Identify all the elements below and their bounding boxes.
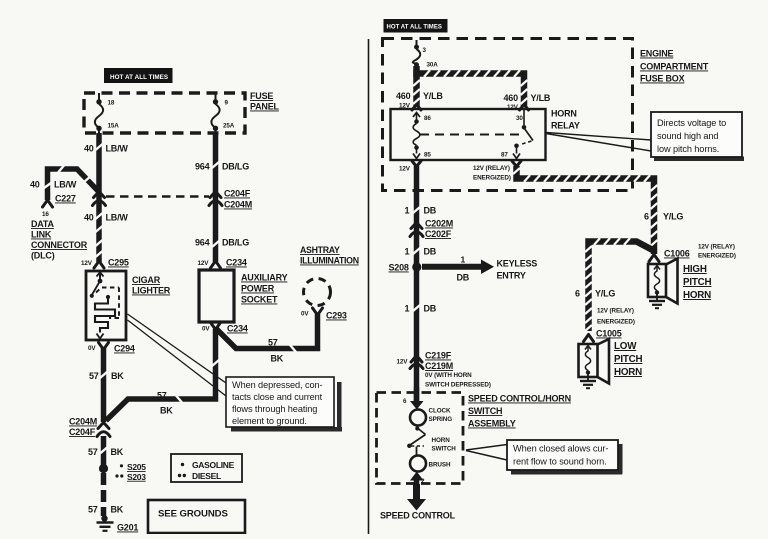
svg-text:SPEED CONTROL/HORN: SPEED CONTROL/HORN: [468, 394, 571, 404]
inline connector C202M/C202F: [410, 219, 453, 240]
label 6 Y/LG (lower): [575, 289, 615, 299]
label 12V (RELAY) ENERGIZED (low horn): [597, 308, 635, 326]
svg-text:LOW: LOW: [614, 341, 637, 352]
svg-text:C295: C295: [108, 258, 129, 268]
callout: when depressed note: [226, 377, 342, 432]
svg-text:BK: BK: [111, 447, 124, 457]
svg-text:40: 40: [30, 180, 40, 190]
wire 40 LB/W from fuse to C295: [96, 133, 103, 262]
svg-text:SWITCH DEPRESSED): SWITCH DEPRESSED): [425, 382, 491, 389]
label HOT AT ALL TIMES (left): [104, 68, 173, 83]
svg-text:POWER: POWER: [241, 284, 275, 294]
inline connector C219F/C219M: [397, 351, 491, 389]
wire dashed segments below splice: [88, 473, 124, 516]
high pitch horn: [648, 259, 678, 304]
wire branch to low pitch horn: [585, 238, 653, 331]
svg-text:12V (RELAY): 12V (RELAY): [698, 244, 735, 251]
label 1 DB (below C202): [405, 247, 437, 257]
svg-text:57: 57: [268, 338, 278, 348]
label 964 DB/LG (bottom): [195, 238, 249, 248]
svg-text:SWITCH: SWITCH: [468, 406, 502, 416]
svg-text:6: 6: [403, 398, 407, 405]
svg-text:C234: C234: [227, 324, 248, 334]
svg-text:COMPARTMENT: COMPARTMENT: [640, 62, 709, 72]
svg-text:ENERGIZED): ENERGIZED): [597, 319, 635, 326]
svg-text:25A: 25A: [223, 123, 235, 130]
svg-text:SPRING: SPRING: [429, 416, 453, 423]
svg-text:1: 1: [405, 206, 410, 216]
splice S208 and keyless entry arrow: [389, 255, 495, 283]
svg-text:85: 85: [424, 152, 431, 159]
label DATA LINK CONNECTOR (DLC): [31, 219, 88, 261]
connector C227 pin 16: [42, 194, 76, 219]
svg-text:C204M: C204M: [224, 200, 252, 210]
auxiliary power socket box: [199, 270, 234, 322]
svg-text:Y/LG: Y/LG: [663, 212, 683, 222]
connector C1005: [584, 329, 622, 342]
label 12V under relay pin 85: [399, 161, 421, 173]
label LOW PITCH HORN: [614, 341, 643, 378]
label SPEED CONTROL: [380, 511, 456, 521]
svg-text:LB/W: LB/W: [106, 213, 129, 223]
svg-text:C1005: C1005: [596, 329, 622, 339]
svg-text:CLOCK: CLOCK: [429, 408, 451, 415]
svg-text:0V (WITH HORN: 0V (WITH HORN: [425, 372, 472, 379]
connector C234 (top of socket): [198, 258, 247, 269]
svg-text:964: 964: [195, 162, 210, 172]
label HIGH PITCH HORN: [683, 264, 712, 301]
callout: directs voltage note: [651, 112, 744, 161]
svg-text:HORN: HORN: [614, 367, 642, 378]
splice S205/S203: [99, 462, 146, 482]
label HOT AT ALL TIMES (right): [384, 19, 448, 33]
low pitch horn: [579, 339, 610, 384]
label ENGINE COMPARTMENT FUSE BOX: [640, 49, 709, 84]
svg-text:DB: DB: [424, 247, 437, 257]
svg-text:CONNECTOR: CONNECTOR: [31, 240, 88, 250]
label 1 DB (below S208): [405, 304, 437, 314]
svg-text:HORN: HORN: [551, 109, 577, 119]
svg-text:964: 964: [195, 238, 210, 248]
relay dashed actuator link: [420, 134, 521, 136]
svg-text:PITCH: PITCH: [614, 354, 643, 365]
svg-text:460: 460: [504, 93, 519, 103]
pin 6 and entry arrow: [403, 387, 424, 410]
wire 57 BK from C294 down: [100, 348, 107, 422]
connector C295: [81, 258, 129, 269]
svg-text:C204F: C204F: [224, 189, 251, 199]
label 1 DB (above C202): [405, 206, 437, 216]
svg-text:12V (RELAY): 12V (RELAY): [597, 308, 634, 315]
label 12V (RELAY) ENERGIZED under pin 87: [473, 161, 521, 182]
dashed connector line C204: [106, 195, 209, 197]
wire ground link from C234 via 57 BK to main: [106, 329, 219, 421]
svg-text:HOT AT ALL TIMES: HOT AT ALL TIMES: [387, 25, 442, 31]
svg-text:Directs voltage to: Directs voltage to: [657, 118, 726, 128]
wire branch to C227: [44, 166, 99, 201]
svg-text:KEYLESS: KEYLESS: [497, 259, 538, 269]
svg-text:3: 3: [423, 47, 427, 54]
svg-text:57: 57: [89, 371, 99, 381]
svg-text:C227: C227: [55, 194, 76, 204]
svg-text:DATA: DATA: [31, 219, 55, 229]
wire 1 DB from relay to speed control: [413, 166, 420, 401]
svg-text:LIGHTER: LIGHTER: [132, 286, 171, 296]
svg-text:FUSE: FUSE: [250, 91, 273, 101]
callout: when closed note: [507, 440, 623, 475]
label 6 Y/LG (upper): [644, 212, 683, 222]
svg-text:2: 2: [421, 478, 425, 485]
svg-text:BRUSH: BRUSH: [429, 462, 451, 469]
svg-text:SPEED CONTROL: SPEED CONTROL: [380, 511, 456, 521]
label 964 DB/LG (top): [195, 162, 249, 172]
svg-text:12V: 12V: [81, 260, 93, 267]
fuse 9 25A: [211, 93, 234, 134]
svg-text:element to ground.: element to ground.: [232, 416, 307, 426]
svg-text:Y/LB: Y/LB: [423, 91, 443, 101]
label 40 LB/W (C227 branch): [30, 180, 77, 190]
svg-text:FUSE BOX: FUSE BOX: [640, 74, 685, 84]
label 460 Y/LB (right): [504, 93, 551, 111]
svg-text:460: 460: [396, 91, 411, 101]
label AUXILIARY POWER SOCKET: [241, 273, 288, 305]
svg-text:1: 1: [461, 255, 466, 265]
svg-text:30: 30: [516, 115, 523, 122]
wire 57 BK from C293 to C234: [217, 314, 318, 364]
horn switch: [407, 426, 456, 452]
svg-text:Y/LG: Y/LG: [595, 289, 615, 299]
svg-text:ASSEMBLY: ASSEMBLY: [468, 419, 516, 429]
svg-text:57: 57: [88, 505, 98, 515]
cigar lighter internals: pin arrow, switch, heating element: [90, 272, 119, 338]
svg-text:HOT AT ALL TIMES: HOT AT ALL TIMES: [110, 74, 168, 81]
cigar lighter box: [86, 271, 126, 340]
label 57 BK (link wire): [157, 391, 173, 416]
svg-text:C293: C293: [326, 311, 347, 321]
clock spring: [410, 408, 452, 426]
svg-text:87: 87: [501, 152, 508, 159]
svg-text:PANEL: PANEL: [250, 102, 280, 112]
svg-text:AUXILIARY: AUXILIARY: [241, 273, 288, 283]
connector C234 (bottom of socket): [202, 323, 248, 334]
brush: [410, 447, 451, 472]
svg-text:12V (RELAY): 12V (RELAY): [473, 165, 510, 172]
callout pointer lines from cigar lighter: [128, 314, 227, 396]
svg-text:ASHTRAY: ASHTRAY: [300, 245, 340, 255]
svg-text:G201: G201: [117, 523, 138, 533]
svg-text:BK: BK: [111, 371, 124, 381]
svg-text:0V: 0V: [301, 311, 309, 318]
svg-text:C204M: C204M: [69, 417, 97, 427]
svg-text:DB/LG: DB/LG: [222, 162, 249, 172]
horn relay box: [391, 109, 546, 160]
label SPEED CONTROL/HORN SWITCH ASSEMBLY: [468, 394, 571, 429]
svg-text:1: 1: [405, 304, 410, 314]
svg-text:Y/LB: Y/LB: [531, 93, 551, 103]
svg-text:C202M: C202M: [425, 219, 453, 229]
svg-text:SEE GROUNDS: SEE GROUNDS: [158, 509, 229, 520]
svg-text:ENERGIZED): ENERGIZED): [473, 175, 511, 182]
wire 57 BK below C204F: [88, 436, 124, 465]
svg-text:12V: 12V: [399, 166, 411, 173]
svg-text:LB/W: LB/W: [106, 144, 129, 154]
label 57 BK (upper): [89, 371, 124, 381]
svg-text:18: 18: [108, 100, 115, 107]
svg-text:low pitch horns.: low pitch horns.: [657, 144, 719, 154]
svg-text:16: 16: [42, 211, 49, 218]
svg-text:C294: C294: [114, 344, 135, 354]
box SEE GROUNDS: [148, 500, 245, 533]
inline connector C204M/C204F (ground wire): [69, 417, 110, 438]
svg-text:40: 40: [84, 144, 94, 154]
svg-text:SOCKET: SOCKET: [241, 295, 278, 305]
label FUSE PANEL: [250, 91, 280, 112]
svg-text:When depressed, con-: When depressed, con-: [232, 380, 322, 390]
svg-text:tacts close and current: tacts close and current: [232, 392, 323, 402]
svg-text:86: 86: [424, 115, 431, 122]
svg-text:6: 6: [575, 289, 580, 299]
connector C293: [301, 308, 347, 321]
ground G201: [97, 515, 139, 532]
svg-text:40: 40: [84, 213, 94, 223]
svg-text:12V: 12V: [397, 359, 409, 366]
svg-text:(DLC): (DLC): [31, 251, 55, 261]
label HORN RELAY: [551, 109, 580, 131]
svg-text:0V: 0V: [202, 326, 210, 333]
svg-text:PITCH: PITCH: [683, 277, 712, 288]
svg-text:30A: 30A: [427, 62, 439, 69]
svg-text:LINK: LINK: [31, 230, 52, 240]
svg-text:C202F: C202F: [425, 229, 452, 239]
connector C294: [88, 343, 135, 354]
ground (high pitch horn): [649, 294, 665, 308]
svg-text:9: 9: [225, 100, 229, 107]
wire to speed control: [407, 484, 426, 511]
svg-text:RELAY: RELAY: [551, 121, 580, 131]
svg-text:BK: BK: [111, 505, 124, 515]
svg-text:LB/W: LB/W: [54, 180, 77, 190]
svg-text:HIGH: HIGH: [683, 264, 707, 275]
svg-text:ILLUMINATION: ILLUMINATION: [300, 256, 359, 266]
engine compartment fuse box: [383, 39, 633, 191]
svg-text:DB: DB: [424, 206, 437, 216]
svg-text:6: 6: [644, 212, 649, 222]
svg-text:DB: DB: [424, 304, 437, 314]
svg-text:sound high and: sound high and: [657, 131, 718, 141]
wire harness from fuse to relay pins: [413, 66, 527, 106]
svg-text:SWITCH: SWITCH: [432, 446, 457, 453]
inline connector C204F/C204M (right wire): [209, 189, 252, 210]
svg-text:CIGAR: CIGAR: [132, 275, 161, 285]
svg-text:HORN: HORN: [683, 290, 711, 301]
svg-text:C234: C234: [226, 258, 247, 268]
svg-text:C219F: C219F: [425, 351, 452, 361]
relay coil: [413, 119, 431, 158]
svg-text:DB/LG: DB/LG: [222, 238, 249, 248]
wire Y/LG from pin 87 to horns: [513, 166, 657, 254]
svg-text:flows through heating: flows through heating: [232, 404, 317, 414]
svg-text:rent flow to sound horn.: rent flow to sound horn.: [513, 457, 607, 467]
svg-text:57: 57: [88, 447, 98, 457]
speed control/horn switch assembly box: [377, 393, 464, 484]
wire 964 DB/LG from fuse to C234: [212, 133, 219, 262]
svg-text:ENERGIZED): ENERGIZED): [698, 253, 736, 260]
fuse 18 15A: [95, 93, 119, 134]
callout pointer to directs-voltage note: [546, 133, 651, 152]
ashtray illumination lamp: [300, 245, 359, 306]
svg-text:C1006: C1006: [664, 249, 690, 259]
svg-text:1: 1: [405, 247, 410, 257]
legend box GASOLINE/DIESEL: [171, 454, 242, 482]
svg-text:GASOLINE: GASOLINE: [192, 460, 235, 470]
svg-text:HORN: HORN: [432, 437, 451, 444]
callout pointer when-closed: [466, 445, 507, 461]
label 40 LB/W (below C204): [84, 213, 128, 223]
label 40 LB/W (top): [84, 144, 128, 154]
connector C1006: [649, 244, 736, 262]
label CIGAR LIGHTER: [132, 275, 171, 296]
svg-text:ENTRY: ENTRY: [497, 271, 526, 281]
fuse 3 30A: [413, 40, 439, 69]
page divider line: [368, 39, 370, 534]
fuse panel box: [84, 93, 245, 133]
relay pin 86: [412, 105, 431, 123]
relay pin 30 and switch: [501, 105, 533, 159]
svg-text:C219M: C219M: [425, 361, 453, 371]
svg-text:When closed alows cur-: When closed alows cur-: [513, 444, 608, 454]
svg-text:S203: S203: [127, 472, 146, 482]
svg-text:15A: 15A: [108, 123, 120, 130]
svg-text:57: 57: [157, 391, 167, 401]
svg-text:DB: DB: [457, 273, 470, 283]
svg-text:ENGINE: ENGINE: [640, 49, 674, 59]
label 460 Y/LB (left): [396, 91, 443, 110]
pin 2 exit arrow: [410, 472, 425, 486]
svg-text:DIESEL: DIESEL: [192, 471, 221, 481]
svg-text:12V: 12V: [198, 260, 210, 267]
inline connector C204 (left wire): [93, 192, 106, 206]
svg-text:C204F: C204F: [69, 427, 96, 437]
svg-text:BK: BK: [271, 354, 284, 364]
svg-text:0V: 0V: [88, 345, 96, 352]
label KEYLESS ENTRY: [497, 259, 538, 281]
svg-text:S205: S205: [127, 462, 146, 472]
svg-text:S208: S208: [389, 263, 409, 273]
ground (low pitch horn): [580, 374, 596, 388]
svg-text:BK: BK: [160, 406, 173, 416]
